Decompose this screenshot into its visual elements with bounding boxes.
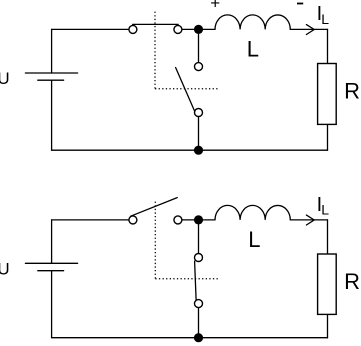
svg-text:L: L [321,11,329,27]
svg-text:R: R [344,269,360,294]
svg-text:U: U [0,69,10,88]
svg-text:L: L [321,202,329,218]
svg-text:R: R [344,78,360,103]
svg-text:+: + [210,0,220,13]
svg-text:L: L [248,227,260,252]
svg-text:L: L [247,36,259,61]
svg-text:U: U [0,260,10,279]
